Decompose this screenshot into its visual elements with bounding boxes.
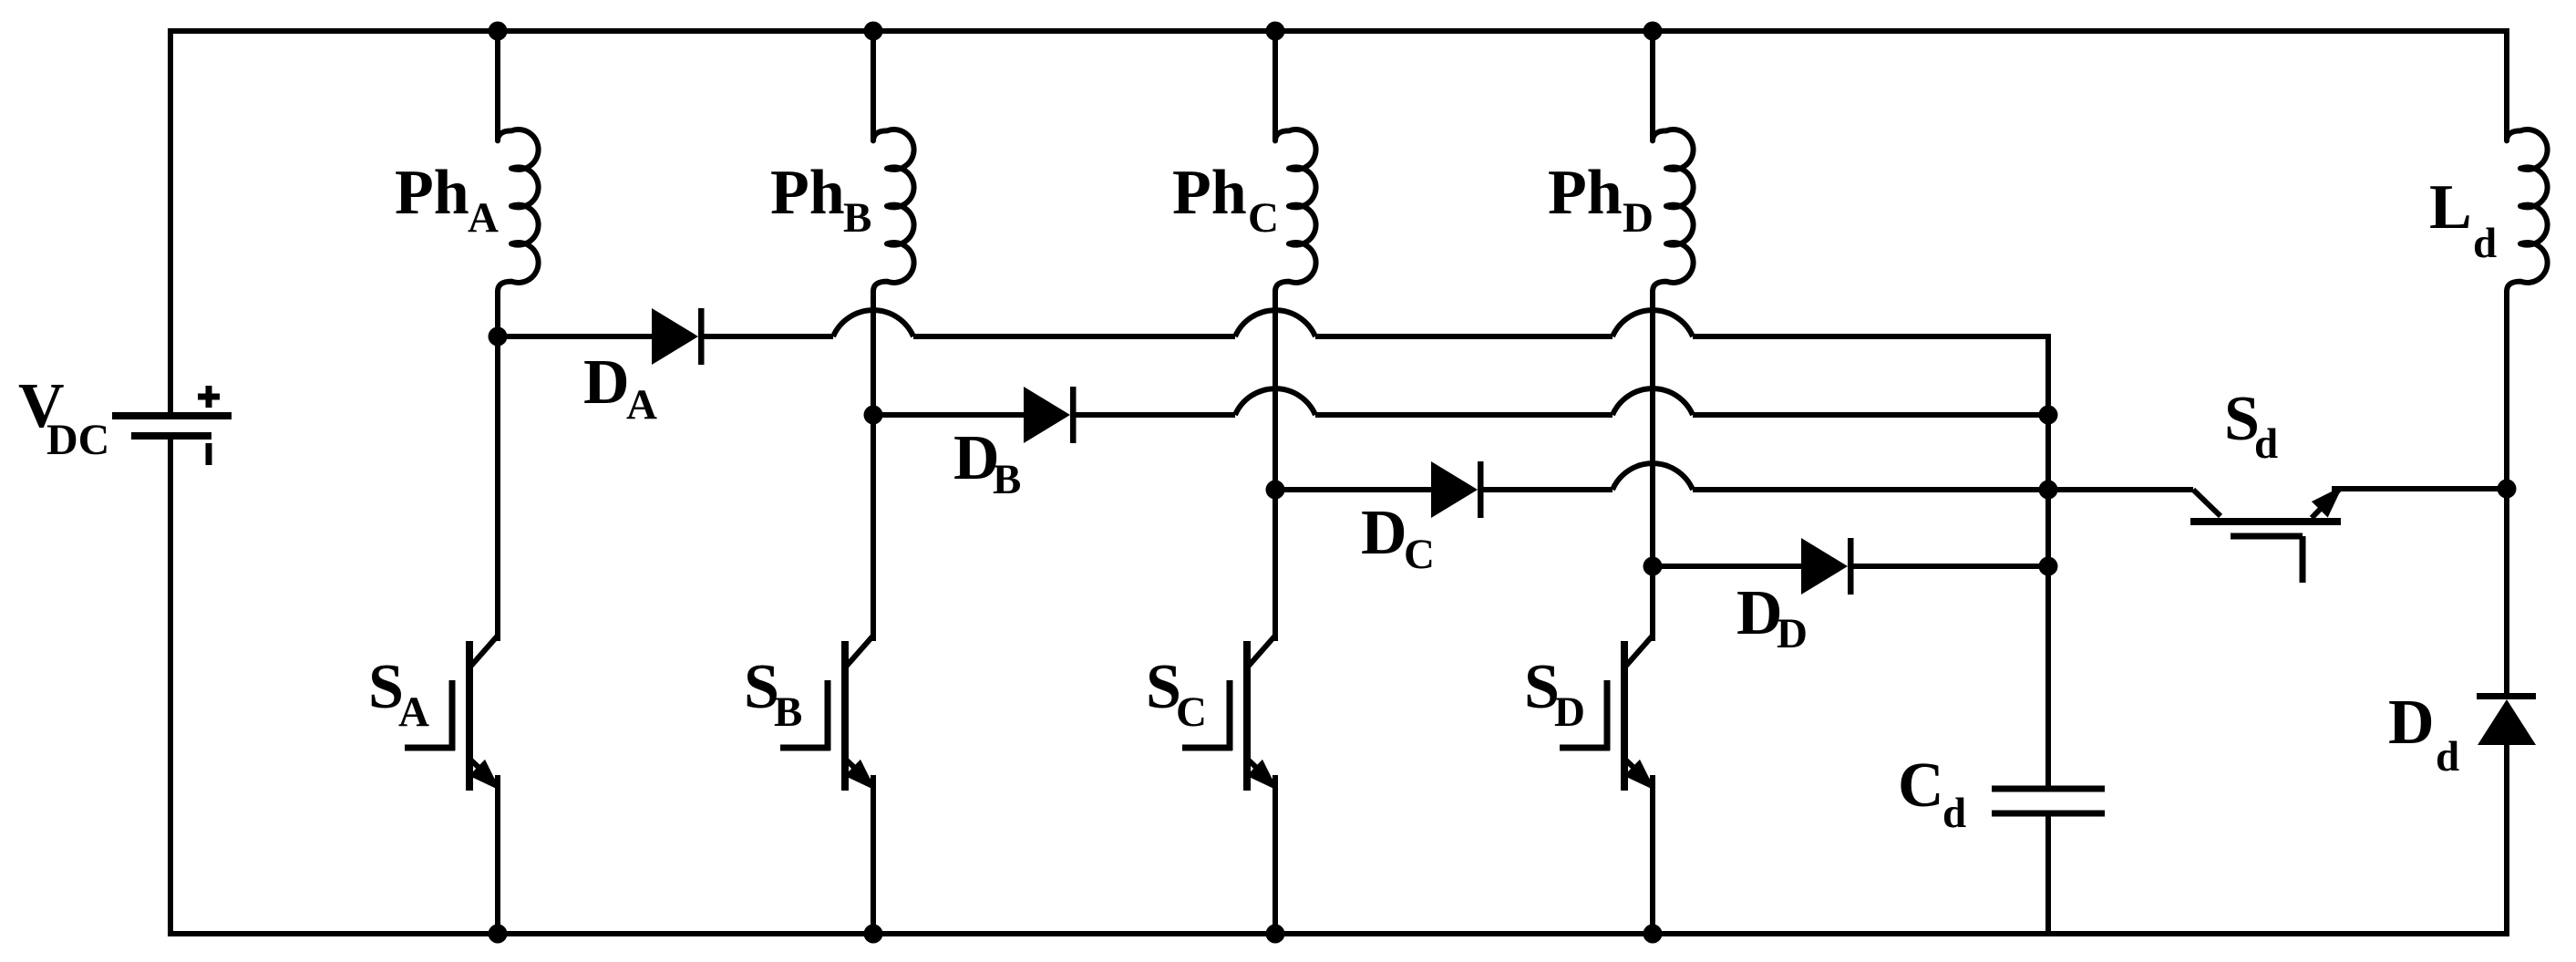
node bottom of Ph_C leg — [1266, 925, 1285, 944]
wire Ph_B leg from top rail — [871, 31, 876, 141]
wire Ph_C leg from top rail — [1273, 31, 1278, 141]
node Ph_D / D_D junction — [1643, 557, 1663, 576]
node top of Ph_B leg — [864, 22, 883, 41]
node Ph_B / D_B junction — [864, 406, 883, 425]
wire Ph_D coil to node — [1650, 290, 1655, 566]
node bus / D_D line — [2039, 557, 2058, 576]
label S_A — [368, 652, 429, 736]
svg-text:D: D — [1554, 688, 1585, 736]
wire S_A emitter to bottom rail — [495, 775, 500, 934]
inductor Ph_A — [498, 129, 539, 292]
wire Ph_C coil to node — [1273, 290, 1278, 490]
label D_D — [1736, 578, 1808, 657]
wire Ph_B node to transistor S_B — [871, 415, 876, 641]
svg-text:D: D — [1623, 194, 1654, 242]
label D_A — [583, 347, 657, 429]
svg-text:D: D — [1736, 578, 1783, 648]
wire right border upper — [2504, 31, 2509, 141]
wire Ph_C node to transistor S_C — [1273, 490, 1278, 641]
label Ph_C — [1172, 158, 1279, 242]
wire S_d emitter to right border — [2332, 486, 2507, 491]
wire Ph_D leg from top rail — [1650, 31, 1655, 141]
diode D_C — [1431, 461, 1484, 518]
label D_C — [1361, 498, 1435, 578]
wire top rail — [168, 28, 2509, 34]
svg-text:D: D — [583, 347, 630, 418]
diode D_D — [1801, 538, 1854, 595]
label S_C — [1146, 652, 1207, 736]
diode D_d — [2477, 697, 2536, 746]
svg-text:d: d — [1942, 790, 1966, 837]
inductor Ph_C — [1275, 129, 1316, 292]
label L_d — [2429, 172, 2497, 267]
wire Ph_B coil to node — [871, 290, 876, 415]
svg-text:A: A — [468, 194, 499, 242]
wire right border lower — [2504, 742, 2509, 934]
wire left border upper — [168, 28, 173, 412]
node bottom of Ph_D leg — [1643, 925, 1663, 944]
diode D_B — [1024, 387, 1077, 443]
svg-text:D: D — [1361, 498, 1407, 568]
wire D_A output line with crossover hops — [498, 310, 2048, 418]
label S_B — [744, 652, 802, 736]
label S_d — [2224, 384, 2278, 468]
wire dump bus vertical upper — [2045, 415, 2051, 786]
transistor S_d — [2190, 486, 2343, 583]
svg-text:d: d — [2254, 420, 2278, 468]
diode D_A — [652, 308, 705, 365]
svg-text:Ph: Ph — [1172, 158, 1247, 228]
label V_DC — [18, 371, 109, 464]
inductor Ph_B — [873, 129, 914, 292]
transistor S_A — [405, 636, 500, 791]
svg-text:B: B — [993, 456, 1021, 503]
node Ph_C / D_C junction — [1266, 481, 1285, 500]
capacitor C_d — [1992, 789, 2105, 813]
wire D_D output line — [1653, 564, 1801, 569]
node top of Ph_D leg — [1643, 22, 1663, 41]
svg-text:DC: DC — [46, 416, 109, 464]
label D_d — [2388, 688, 2459, 781]
label S_D — [1524, 652, 1585, 736]
node right border / S_d — [2498, 480, 2517, 499]
wire S_C emitter to bottom rail — [1273, 775, 1278, 934]
svg-text:d: d — [2436, 733, 2459, 781]
svg-text:C: C — [1404, 531, 1435, 578]
transistor S_C — [1182, 636, 1278, 791]
inductor Ph_D — [1653, 129, 1694, 292]
label Ph_B — [770, 158, 871, 242]
node Ph_A / D_A junction — [489, 327, 508, 347]
svg-text:B: B — [774, 688, 802, 736]
wire left border lower — [168, 440, 173, 936]
inductor L_d — [2507, 129, 2548, 292]
transistor S_D — [1560, 636, 1655, 791]
wire Ph_A leg from top rail — [495, 31, 500, 141]
wire Ph_A coil to node — [495, 290, 500, 336]
svg-text:Ph: Ph — [395, 158, 469, 228]
battery V_DC — [112, 386, 232, 465]
svg-text:A: A — [626, 381, 657, 429]
node bus / D_B line — [2039, 406, 2058, 425]
svg-text:A: A — [398, 688, 429, 736]
wire S_D emitter to bottom rail — [1650, 775, 1655, 934]
node top of Ph_A leg — [489, 22, 508, 41]
svg-text:L: L — [2429, 172, 2472, 243]
node bus / D_C line — [2039, 481, 2058, 500]
svg-text:Ph: Ph — [1548, 158, 1623, 228]
label C_d — [1898, 750, 1966, 837]
svg-text:Ph: Ph — [770, 158, 845, 228]
wire D_B output line with crossover hops — [873, 388, 2048, 415]
node bottom of Ph_B leg — [864, 925, 883, 944]
svg-text:D: D — [2388, 688, 2435, 758]
svg-text:d: d — [2473, 220, 2497, 267]
label Ph_D — [1548, 158, 1654, 242]
node bottom of Ph_A leg — [489, 925, 508, 944]
svg-text:C: C — [1898, 750, 1944, 821]
svg-text:B: B — [843, 194, 871, 242]
wire Ph_D node to transistor S_D — [1650, 566, 1655, 641]
label D_B — [953, 423, 1021, 503]
wire Ph_A node to transistor S_A — [495, 336, 500, 641]
wire bottom rail — [168, 931, 2509, 936]
wire right border middle — [2504, 290, 2509, 698]
svg-text:C: C — [1176, 688, 1207, 736]
wire S_B emitter to bottom rail — [871, 775, 876, 934]
label Ph_A — [395, 158, 499, 242]
wire D_C output line with crossover hop — [1275, 463, 2048, 490]
transistor S_B — [780, 636, 876, 791]
svg-text:C: C — [1248, 194, 1279, 242]
node top of Ph_C leg — [1266, 22, 1285, 41]
wire bus to S_d collector — [2048, 487, 2193, 492]
svg-text:D: D — [1777, 610, 1808, 657]
wire dump bus vertical lower — [2045, 817, 2051, 935]
